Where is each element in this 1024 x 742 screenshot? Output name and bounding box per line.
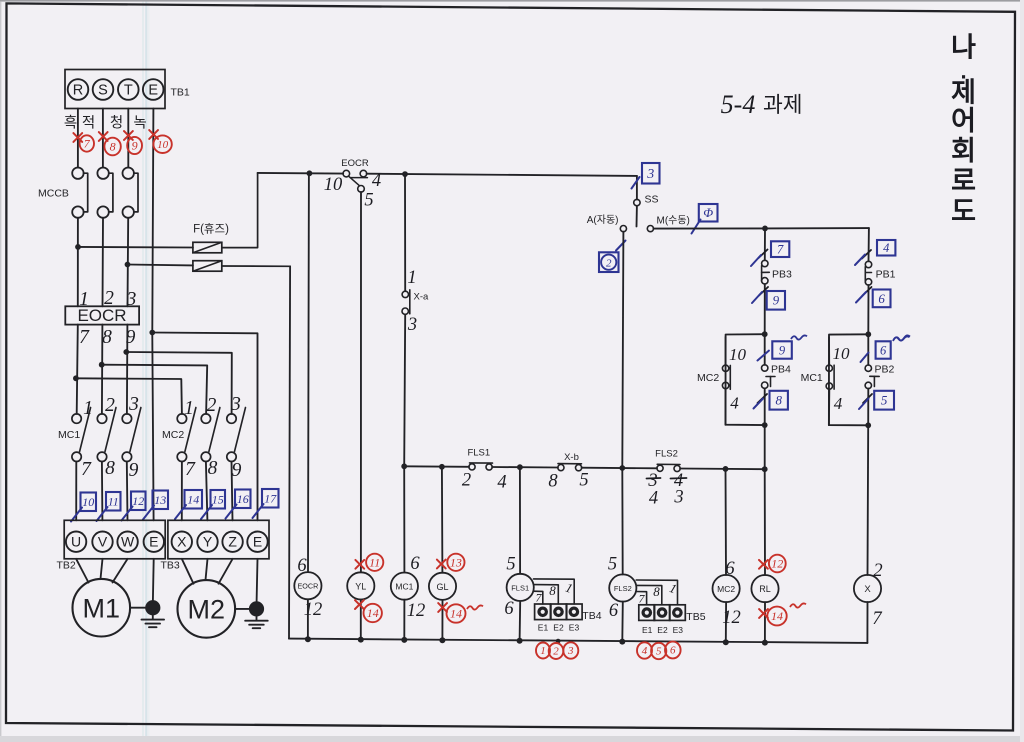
node PB4 top <box>762 331 768 337</box>
svg-text:로: 로 <box>951 166 976 196</box>
handwritten 10 above MC1 aux <box>833 344 851 363</box>
svg-text:U: U <box>71 534 81 550</box>
blue boxed 13 <box>143 491 168 520</box>
coil FLS1 <box>507 467 534 641</box>
handwritten 1 above X-a <box>407 268 416 288</box>
wire X-a upper <box>404 174 406 291</box>
svg-text:13: 13 <box>154 493 166 507</box>
svg-text:3: 3 <box>673 488 683 508</box>
wire EOCR8 to MC2 pole2 <box>102 365 208 414</box>
svg-text:14: 14 <box>367 606 379 620</box>
label EOCR contact <box>341 158 369 169</box>
svg-text:제: 제 <box>951 78 976 108</box>
handwritten 12 below EOCR coil <box>304 600 323 620</box>
wire T phase TB1-MCCB <box>127 109 129 168</box>
svg-text:Z: Z <box>228 534 237 550</box>
handwritten 4 below MC2 aux <box>730 394 739 413</box>
wire EOCR coil to bus <box>307 599 309 639</box>
push button PB4 <box>762 334 776 425</box>
svg-text:12: 12 <box>304 600 323 620</box>
coil X relay <box>854 575 881 643</box>
blue boxed 4 <box>877 240 895 256</box>
svg-text:10: 10 <box>82 495 94 509</box>
blue boxed 15 <box>201 490 225 519</box>
svg-text:4: 4 <box>642 645 648 657</box>
svg-text:8: 8 <box>548 472 558 492</box>
svg-text:3: 3 <box>567 645 574 657</box>
label MC1 contacts <box>58 429 80 441</box>
label TB5 <box>686 611 705 623</box>
svg-text:8: 8 <box>775 393 782 408</box>
coil FLS2 <box>609 468 636 642</box>
blue boxed 3 <box>642 163 660 184</box>
red X circled 12 above RL <box>759 555 786 573</box>
wire V EOCR-MC1 <box>101 325 104 414</box>
blue slash at A <box>616 241 626 251</box>
node GL tap <box>439 464 445 470</box>
svg-text:1: 1 <box>540 645 546 657</box>
wire MC2p3-TB3 <box>232 462 233 521</box>
svg-text:E3: E3 <box>673 625 684 635</box>
handwritten 5 above FLS1 coil <box>506 555 515 575</box>
node bus MC1 <box>401 637 407 643</box>
handwritten 12 below MC1 coil <box>407 601 426 621</box>
contact M(manual) terminal <box>647 226 653 232</box>
svg-text:MC1: MC1 <box>395 582 413 592</box>
node bus RL <box>762 640 768 646</box>
svg-text:E1: E1 <box>538 623 549 633</box>
node bus FLS1 <box>517 638 523 644</box>
svg-text:2: 2 <box>105 395 115 416</box>
svg-text:10: 10 <box>729 345 747 364</box>
node EOCR7 branch <box>73 375 79 381</box>
svg-text:5: 5 <box>608 555 617 575</box>
wire X-a lower <box>404 314 405 466</box>
svg-text:9: 9 <box>232 460 242 481</box>
svg-text:8: 8 <box>653 584 660 599</box>
svg-text:10: 10 <box>324 175 343 195</box>
svg-text:MC1: MC1 <box>58 429 80 441</box>
junction node T-fuse2 <box>125 262 131 268</box>
node RL tap <box>762 466 768 472</box>
svg-text:1: 1 <box>184 398 194 419</box>
handwritten 6 below FLS1 coil <box>504 599 514 619</box>
blue boxed 6 upper <box>873 290 891 308</box>
node FLS2-A tap <box>619 465 625 471</box>
svg-text:17: 17 <box>264 491 277 505</box>
svg-text:청: 청 <box>110 115 123 132</box>
svg-text:FLS2: FLS2 <box>655 449 678 460</box>
wire T MCCB-EOCR <box>127 218 130 306</box>
svg-text:2: 2 <box>462 471 471 491</box>
fuse F1 <box>78 173 258 253</box>
svg-text:TB4: TB4 <box>582 610 601 622</box>
handwritten 7 8 1 at TB4 <box>536 580 575 605</box>
label TB4 <box>582 610 601 622</box>
motor M1 <box>73 559 131 637</box>
wire M branch <box>654 228 869 261</box>
svg-text:5: 5 <box>364 191 373 211</box>
coil EOCR <box>294 572 321 599</box>
handwritten 5 above FLS2 coil <box>608 555 617 575</box>
svg-text:3: 3 <box>126 289 137 310</box>
svg-text:9: 9 <box>779 343 786 357</box>
wire PB4 to bus <box>764 425 766 469</box>
svg-text:2: 2 <box>873 561 882 581</box>
handwritten 1 2 3 above MC2 <box>184 394 241 419</box>
svg-text:T: T <box>124 83 133 99</box>
blue slash at SS <box>632 177 640 189</box>
svg-text:14: 14 <box>450 607 462 621</box>
label MC2 contacts <box>162 429 184 441</box>
handwritten 6 below FLS2 coil <box>609 601 619 621</box>
svg-text:PB4: PB4 <box>771 364 791 376</box>
svg-text:7: 7 <box>79 327 90 348</box>
svg-text:7: 7 <box>84 137 91 151</box>
blue boxed 11 <box>97 492 121 521</box>
wire U EOCR-MC1 <box>77 325 78 414</box>
handwritten 10 4 5 at EOCR contact <box>324 171 381 211</box>
contact X-b (relay b-contact) <box>558 464 582 471</box>
wire left rail of control circuit <box>289 266 290 638</box>
svg-text:6: 6 <box>504 599 514 619</box>
blue boxed 10 <box>71 493 96 522</box>
check+blue boxed 5 <box>859 391 894 410</box>
contact FLS1 (NO float switch) <box>469 463 493 470</box>
motor M2 <box>178 559 236 638</box>
node MC1 coil tap <box>401 463 407 469</box>
svg-text:5-4: 5-4 <box>721 90 756 119</box>
red circled 8 <box>104 138 120 156</box>
svg-text:4: 4 <box>649 489 658 509</box>
red circled 7 <box>80 135 94 151</box>
wire MC2p2-TB3 <box>206 462 208 521</box>
wires FLS2 to TB5 <box>636 580 678 605</box>
contact A(auto) terminal <box>620 226 626 232</box>
node bus MC2 <box>723 639 729 645</box>
svg-text:12: 12 <box>132 494 144 508</box>
svg-text:1: 1 <box>407 268 416 288</box>
label PB4 <box>771 364 791 376</box>
node FLS1 coil tap <box>517 464 523 470</box>
svg-text:1: 1 <box>83 398 93 419</box>
check marks PB3 top <box>751 250 768 267</box>
svg-text:V: V <box>98 534 108 550</box>
terminal block TB1 <box>65 70 165 109</box>
svg-text:4: 4 <box>834 394 843 413</box>
svg-text:R: R <box>73 83 83 99</box>
svg-text:E: E <box>253 534 262 550</box>
svg-text:3: 3 <box>646 167 654 182</box>
svg-text:YL: YL <box>355 581 366 591</box>
svg-text:PB3: PB3 <box>772 269 792 281</box>
svg-text:10: 10 <box>157 139 169 151</box>
svg-text:흑: 흑 <box>64 114 77 132</box>
svg-text:도: 도 <box>951 197 976 227</box>
svg-text:E2: E2 <box>553 623 564 633</box>
svg-text:5: 5 <box>656 646 662 658</box>
wire MC2p1-TB3 <box>181 462 183 521</box>
svg-text:TB1: TB1 <box>171 87 190 99</box>
svg-text:어: 어 <box>951 106 976 136</box>
blue boxed 2 at A <box>599 252 619 272</box>
handwritten 8 5 at X-b <box>548 471 588 492</box>
svg-text:W: W <box>121 534 135 550</box>
blue boxed 6 lower with squiggle <box>876 336 910 358</box>
svg-text:6: 6 <box>410 554 420 574</box>
svg-text:8: 8 <box>102 327 112 348</box>
node PB2 top <box>865 331 871 337</box>
push button PB3 <box>762 228 770 334</box>
handwritten 2 above X coil <box>873 561 882 581</box>
svg-text:과제: 과제 <box>763 93 803 117</box>
svg-text:8: 8 <box>105 458 115 479</box>
label MC2 self-hold <box>697 372 719 384</box>
blue squiggle margin <box>893 335 910 341</box>
svg-text:2: 2 <box>553 646 559 658</box>
svg-text:MCCB: MCCB <box>38 188 69 200</box>
svg-text:1: 1 <box>79 289 89 310</box>
svg-text:GL: GL <box>436 582 448 592</box>
svg-text:4: 4 <box>883 241 889 255</box>
svg-text:6: 6 <box>609 601 619 621</box>
wire A branch <box>622 232 623 468</box>
red X circled 11 above YL <box>355 554 383 571</box>
terminal block TB2 <box>64 520 165 559</box>
coil RL lamp <box>751 469 778 642</box>
svg-text:PB1: PB1 <box>876 269 896 281</box>
svg-text:6: 6 <box>670 645 676 657</box>
red circled 10 <box>153 135 171 153</box>
wire W EOCR-MC1 <box>126 325 129 414</box>
handwritten 7 8 1 at TB5 <box>639 580 679 605</box>
terminal block TB4 <box>535 604 583 620</box>
svg-text:EOCR: EOCR <box>298 582 319 591</box>
svg-text:9: 9 <box>773 293 780 308</box>
wire R MCCB-EOCR <box>77 218 79 306</box>
svg-text:7: 7 <box>639 592 646 606</box>
svg-text:2: 2 <box>606 258 612 270</box>
svg-text:7: 7 <box>536 591 543 605</box>
handwritten 1 2 3 above MC1 <box>83 394 139 419</box>
svg-text:15: 15 <box>212 492 224 506</box>
svg-text:X-a: X-a <box>414 292 430 303</box>
svg-text:MC1: MC1 <box>801 372 823 384</box>
svg-text:녹: 녹 <box>133 115 146 132</box>
svg-text:12: 12 <box>722 608 741 628</box>
blue boxed 10 at M <box>692 204 718 234</box>
svg-text:PB2: PB2 <box>875 364 895 376</box>
svg-text:14: 14 <box>771 609 783 623</box>
label A(자동) <box>587 214 619 226</box>
svg-text:E: E <box>148 83 158 99</box>
svg-text:13: 13 <box>450 555 462 569</box>
junction node R-fuse1 <box>75 244 81 250</box>
svg-text:2: 2 <box>104 288 114 309</box>
handwritten 6 above MC2 coil <box>725 559 735 579</box>
svg-text:E3: E3 <box>569 623 580 633</box>
terminal block TB5 <box>639 605 686 621</box>
labels E1 E2 E3 of TB5 <box>642 625 683 635</box>
vertical title text 나.제어회로도 <box>951 33 976 227</box>
svg-text:16: 16 <box>237 492 249 506</box>
handwritten 4 below MC1 aux <box>834 394 843 413</box>
node EOCR9 branch <box>123 349 129 355</box>
svg-text:4: 4 <box>730 394 739 413</box>
wire PB2 to X coil <box>867 425 870 575</box>
svg-text:적: 적 <box>82 115 95 132</box>
red X circled 14 below YL <box>355 600 382 622</box>
red circled 4 5 6 <box>637 642 681 660</box>
wire bus corner to SS <box>636 176 638 200</box>
circuit breaker MCCB <box>72 168 138 218</box>
svg-text:EOCR: EOCR <box>341 158 369 169</box>
wire EOCR coil feed <box>307 173 310 572</box>
contact EOCR trip (95-96-98) <box>343 170 367 192</box>
svg-text:3: 3 <box>128 394 139 415</box>
red X circled 14 below RL <box>759 603 806 625</box>
svg-text:TB5: TB5 <box>686 611 705 623</box>
svg-text:F(휴즈): F(휴즈) <box>193 222 229 235</box>
handwritten 6 above EOCR coil <box>297 556 307 576</box>
svg-text:8: 8 <box>110 140 116 154</box>
handwritten 7 8 9 below MC1 <box>81 458 139 481</box>
svg-text:회: 회 <box>951 136 976 166</box>
coil GL lamp <box>429 467 456 640</box>
svg-text:8: 8 <box>208 458 218 479</box>
wire E earth TB1 down <box>152 109 153 330</box>
blue boxed 16 <box>226 490 251 519</box>
wire MC1p3-TB2 <box>126 462 129 521</box>
handwritten pins 7 8 9 below EOCR <box>79 327 136 348</box>
svg-text:FLS1: FLS1 <box>467 448 490 459</box>
label PB2 <box>875 364 895 376</box>
svg-text:A(자동): A(자동) <box>587 214 619 226</box>
node EOCR8 branch <box>99 362 105 368</box>
handwritten 12 below MC2 coil <box>722 608 741 628</box>
handwritten 10 above MC2 aux <box>729 345 747 364</box>
node bus FLS2 <box>619 639 625 645</box>
selector switch SS <box>634 199 640 226</box>
label MCCB <box>38 188 69 200</box>
wire FLS bus <box>404 466 765 469</box>
wire bottom bus <box>289 639 867 643</box>
label FLS1 contact <box>467 448 490 459</box>
wire top bus <box>258 173 637 176</box>
node PB2 bottom <box>865 422 871 428</box>
svg-text:3: 3 <box>230 394 241 415</box>
svg-text:9: 9 <box>132 139 138 153</box>
svg-text:MC2: MC2 <box>717 584 735 594</box>
check marks PB1 top <box>855 250 871 265</box>
label X-a <box>414 292 430 303</box>
blue boxed 17 <box>253 489 279 518</box>
handwritten 7 8 9 below MC2 <box>185 458 242 481</box>
svg-text:11: 11 <box>108 494 119 508</box>
node bus TB4 <box>556 639 561 644</box>
contact FLS2 (float switch) <box>657 464 680 471</box>
svg-text:4: 4 <box>497 473 506 493</box>
wire E to TB3 <box>152 333 257 521</box>
svg-text:M2: M2 <box>188 595 226 625</box>
relay EOCR box <box>65 306 139 325</box>
label FLS2 contact <box>655 449 678 460</box>
terminal block TB3 <box>168 520 269 559</box>
svg-text:3: 3 <box>407 315 417 335</box>
svg-text:TB2: TB2 <box>57 560 76 572</box>
handwritten 6 above MC1 coil <box>410 554 420 574</box>
wire S phase TB1-MCCB <box>102 109 104 168</box>
node MC2 coil tap <box>723 466 729 472</box>
blue boxed 14 <box>175 490 202 519</box>
node E branch <box>149 330 155 336</box>
svg-text:X: X <box>177 534 187 550</box>
red circled 1 2 3 <box>536 642 578 659</box>
svg-text:E1: E1 <box>642 625 653 635</box>
svg-text:X-b: X-b <box>564 452 579 463</box>
node X-a tap <box>402 171 408 177</box>
label X-b <box>564 452 579 463</box>
coil YL lamp <box>347 192 374 640</box>
label M(수동) <box>657 215 690 227</box>
handwritten 2 4 at FLS1 <box>462 471 507 493</box>
label MC1 self-hold <box>801 372 823 384</box>
svg-text:M(수동): M(수동) <box>657 215 690 227</box>
svg-text:6: 6 <box>297 556 307 576</box>
blue boxed 12 <box>122 492 146 521</box>
svg-text:Y: Y <box>203 534 213 550</box>
svg-text:6: 6 <box>878 291 885 306</box>
svg-text:X: X <box>864 584 871 595</box>
svg-text:TB3: TB3 <box>161 560 180 572</box>
node bus YL <box>358 637 364 643</box>
push button PB2 <box>865 334 879 425</box>
svg-text:6: 6 <box>880 343 887 357</box>
wire MC1p2-TB2 <box>101 462 104 521</box>
contact MC1 self-hold <box>826 334 868 425</box>
svg-text:MC2: MC2 <box>697 372 719 384</box>
svg-text:6: 6 <box>725 559 735 579</box>
check+blue boxed 8 <box>754 391 788 410</box>
labels E1 E2 E3 of TB4 <box>538 623 580 633</box>
node PB3 tap <box>762 226 768 232</box>
push button PB1 <box>865 261 871 334</box>
svg-text:14: 14 <box>187 492 199 506</box>
svg-text:5: 5 <box>881 393 888 408</box>
check marks PB3 bottom <box>752 287 768 303</box>
handwritten 3-struck 4 at FLS2 left <box>647 471 661 509</box>
svg-text:MC2: MC2 <box>162 429 184 441</box>
svg-text:7: 7 <box>81 459 92 480</box>
handwritten pins 1 2 3 above EOCR <box>79 288 137 310</box>
handwritten 3 below X-a <box>407 315 417 335</box>
svg-text:2: 2 <box>207 395 217 416</box>
svg-text:12: 12 <box>407 601 426 621</box>
contact X-a (relay a-contact) <box>402 290 410 315</box>
svg-text:7: 7 <box>872 609 882 629</box>
blue boxed 9 upper <box>767 291 785 310</box>
svg-text:FLS1: FLS1 <box>511 583 529 592</box>
ground G1 <box>130 559 164 627</box>
svg-text:7: 7 <box>777 242 784 256</box>
svg-text:SS: SS <box>645 194 659 206</box>
svg-text:10: 10 <box>833 344 851 363</box>
wire EOCR7 to MC2 pole1 <box>76 378 182 414</box>
svg-text:5: 5 <box>506 555 515 575</box>
red X marks on TB1 wires <box>73 130 158 142</box>
wire S MCCB-EOCR <box>102 218 105 306</box>
red X circled 14 below GL <box>438 603 483 623</box>
